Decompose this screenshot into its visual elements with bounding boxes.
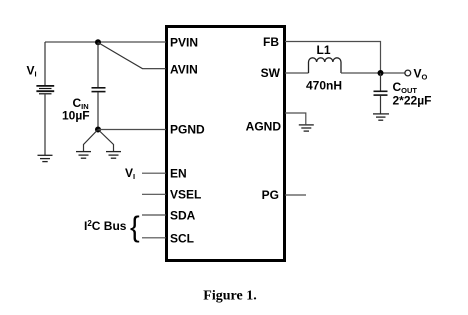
pin label AVIN — [170, 63, 198, 77]
svg-text:VSEL: VSEL — [170, 188, 201, 202]
label VO — [414, 67, 428, 82]
battery VI — [36, 86, 54, 94]
wire battery bottom stem — [44, 95, 46, 156]
wire PG — [285, 194, 306, 196]
wire AGND — [285, 113, 306, 124]
node A (input node) — [95, 39, 101, 45]
node B (PGND node) — [95, 127, 101, 133]
wire COUT bottom stem — [380, 96, 382, 114]
wire VSEL — [142, 193, 166, 195]
pin label FB — [263, 35, 279, 49]
ground (left of PGND node) — [76, 152, 91, 159]
svg-text:SDA: SDA — [170, 209, 196, 223]
wire SW — [285, 72, 309, 74]
pin label PVIN — [170, 36, 198, 50]
wire CIN bottom stem — [97, 92, 99, 129]
svg-text:L1: L1 — [317, 43, 331, 57]
ground (AGND) — [299, 125, 314, 131]
label L1 — [317, 43, 331, 57]
I2C brace — [130, 211, 140, 243]
node C (output node) — [378, 70, 384, 76]
caption Figure 1. — [203, 289, 256, 304]
wire COUT top stem — [380, 73, 382, 91]
svg-text:EN: EN — [170, 167, 187, 181]
terminal VO circle — [405, 70, 411, 76]
wire PVIN input — [45, 41, 166, 43]
IC U1 box — [167, 27, 285, 261]
inductor L1 — [309, 58, 342, 73]
svg-text:{: { — [130, 211, 140, 243]
ground (below COUT) — [373, 114, 389, 120]
svg-text:AVIN: AVIN — [170, 63, 198, 77]
svg-text:PVIN: PVIN — [170, 36, 198, 50]
wire battery top stem — [44, 42, 46, 85]
svg-text:10µF: 10µF — [62, 109, 90, 123]
svg-text:FB: FB — [263, 35, 279, 49]
label I2C Bus — [84, 219, 127, 233]
pin label AGND — [246, 120, 282, 134]
pin label EN — [170, 167, 187, 181]
ground (below battery) — [38, 155, 53, 161]
label COUT — [393, 80, 418, 95]
svg-text:PGND: PGND — [170, 123, 205, 137]
svg-text:PG: PG — [262, 188, 279, 202]
wire FB — [285, 42, 381, 74]
pin label PG — [262, 188, 279, 202]
pin label SCL — [170, 232, 194, 246]
label VI (EN) — [125, 166, 135, 181]
wire SCL — [142, 237, 166, 239]
label 2*22uF — [393, 94, 432, 108]
pin label VSEL — [170, 188, 201, 202]
wire EN — [142, 172, 166, 174]
ground (right of PGND node) — [106, 152, 121, 159]
pin label SW — [261, 66, 281, 80]
wire SW to output node — [341, 72, 405, 74]
svg-text:2*22µF: 2*22µF — [393, 94, 432, 108]
svg-text:Figure 1.: Figure 1. — [203, 289, 256, 304]
label VI (battery) — [27, 64, 37, 79]
capacitor COUT — [374, 91, 388, 95]
label CIN — [73, 96, 89, 111]
capacitor CIN — [92, 88, 106, 92]
wire PGND — [98, 129, 166, 131]
wire node B to right ground — [98, 130, 114, 152]
wire CIN top stem — [97, 43, 99, 88]
wire AVIN diagonal — [98, 43, 166, 69]
label 470nH — [306, 79, 342, 93]
pin label PGND — [170, 123, 205, 137]
svg-text:AGND: AGND — [246, 120, 282, 134]
pin label SDA — [170, 209, 196, 223]
svg-text:SCL: SCL — [170, 232, 194, 246]
wire node B to left ground — [84, 130, 99, 152]
svg-text:470nH: 470nH — [306, 79, 342, 93]
svg-text:SW: SW — [261, 66, 281, 80]
label 10uF — [62, 109, 90, 123]
wire SDA — [142, 214, 166, 216]
